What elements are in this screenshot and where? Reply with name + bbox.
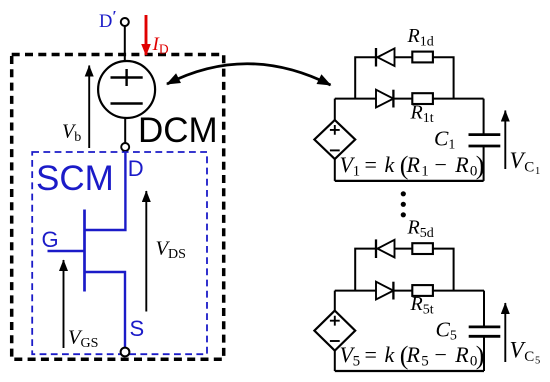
- mapping double-headed arrow: [167, 64, 331, 85]
- svg-text:S: S: [130, 316, 145, 341]
- dependent source V5 diamond: [314, 311, 355, 351]
- node S: [121, 348, 130, 357]
- svg-text:C1: C1: [434, 127, 455, 153]
- wire main line 5: [335, 290, 484, 292]
- wire main line 1: [335, 98, 484, 100]
- wire source lead: [85, 272, 126, 348]
- wire drain: [85, 151, 126, 230]
- svg-text:D: D: [128, 156, 144, 181]
- arrow VC1: [504, 111, 506, 170]
- svg-text:D′: D′: [99, 9, 117, 33]
- svg-text:R5d: R5d: [407, 217, 434, 241]
- arrow VGS: [63, 260, 65, 348]
- diode D1d (points left): [376, 48, 395, 67]
- vertical ellipsis dots: [401, 191, 406, 217]
- wire top branch 1: [355, 57, 453, 98]
- svg-text:VC1: VC1: [510, 148, 541, 177]
- svg-text:R1t: R1t: [410, 102, 434, 126]
- diode D1t (points right): [376, 90, 393, 108]
- arrow Vb: [88, 66, 90, 149]
- node D': [121, 18, 129, 26]
- wire diamond to bottom 1: [334, 159, 336, 181]
- svg-text:R1d: R1d: [407, 25, 434, 49]
- minus sign of source: [111, 102, 143, 104]
- resistor R5d: [412, 243, 433, 254]
- current arrow ID: [145, 15, 148, 55]
- svg-text:VC5: VC5: [510, 338, 541, 367]
- svg-text:C5: C5: [436, 318, 457, 344]
- svg-text:VGS: VGS: [68, 327, 98, 351]
- wire to diamond 5: [334, 291, 336, 311]
- diode D5d (points left): [376, 239, 395, 258]
- wire diamond to bottom 5: [334, 351, 336, 371]
- transistor M1 channel bar: [83, 210, 86, 292]
- wire source to node D: [124, 118, 126, 144]
- wire to diamond 1: [334, 99, 336, 120]
- SCM dashed box: [32, 152, 207, 354]
- plus sign V5: [330, 316, 340, 326]
- wire right vertical 5: [483, 291, 485, 371]
- dependent source V1 diamond: [314, 120, 355, 159]
- wire D' to source: [124, 26, 126, 62]
- resistor R1d: [412, 52, 433, 63]
- plus sign of source: [111, 69, 143, 86]
- svg-text:V1=k(R1−R0): V1=k(R1−R0): [340, 151, 485, 180]
- svg-text:VDS: VDS: [156, 238, 186, 262]
- wire right vertical 1: [483, 99, 485, 181]
- capacitor C5 plates: [469, 327, 501, 336]
- resistor R5t: [412, 285, 433, 296]
- wire bottom 5: [335, 370, 484, 372]
- svg-text:SCM: SCM: [36, 159, 114, 198]
- capacitor C1 plates: [469, 135, 501, 146]
- minus sign V1: [330, 149, 340, 151]
- plus sign V1: [330, 125, 340, 135]
- arrow VDS: [145, 191, 147, 312]
- wire top branch 5: [355, 249, 453, 291]
- voltage source U1 circle: [98, 61, 155, 118]
- DCM dashed box: [12, 55, 224, 360]
- svg-text:V5=k(R5−R0): V5=k(R5−R0): [340, 341, 485, 370]
- svg-text:G: G: [42, 227, 59, 252]
- resistor R1t: [412, 93, 433, 104]
- node D: [121, 143, 129, 151]
- arrow VC5: [504, 303, 506, 362]
- svg-text:DCM: DCM: [138, 111, 218, 150]
- transistor gate lead: [48, 250, 85, 252]
- svg-text:ID: ID: [152, 34, 169, 57]
- svg-text:Vb: Vb: [62, 121, 81, 145]
- diode D5t (points right): [376, 282, 393, 300]
- wire bottom 1: [335, 180, 484, 182]
- minus sign V5: [330, 340, 340, 342]
